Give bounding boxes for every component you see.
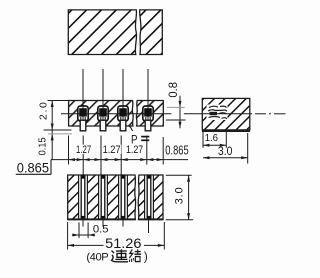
slot 2 bbox=[99, 175, 108, 220]
side view centerline bbox=[202, 113, 285, 115]
pin contact 2 body bbox=[98, 106, 108, 131]
slot 1 bbox=[79, 175, 88, 220]
svg-text:3.0: 3.0 bbox=[218, 145, 233, 158]
side view contact detail bbox=[207, 105, 228, 121]
arrows on dim row bbox=[69, 158, 76, 161]
pin centerline 4 bbox=[147, 69, 149, 121]
dim 0.8 bbox=[166, 82, 186, 128]
svg-text:(40P: (40P bbox=[86, 252, 108, 264]
svg-text:0.865: 0.865 bbox=[17, 160, 49, 175]
side view body bbox=[202, 98, 250, 131]
dim 0.15 bbox=[37, 130, 72, 155]
slot 4 bbox=[145, 175, 154, 220]
pin centerline 1 bbox=[82, 69, 84, 121]
svg-text:0.5: 0.5 bbox=[93, 223, 109, 235]
pin centerline 3 bbox=[122, 69, 124, 121]
dim 0.5 bbox=[72, 222, 109, 238]
dim text 1.27 x3 bbox=[75, 145, 92, 154]
svg-text:P: P bbox=[131, 132, 138, 146]
svg-text:3.0: 3.0 bbox=[174, 187, 186, 204]
slot 3 bbox=[119, 175, 128, 220]
bottom view slot centerlines below bbox=[83, 220, 149, 233]
front view housing right piece bbox=[136, 101, 163, 127]
dim 3.0 vertical bbox=[166, 175, 193, 220]
extension ticks bbox=[69, 136, 164, 176]
svg-text:1.6: 1.6 bbox=[205, 133, 218, 144]
bottom view right piece bbox=[138, 175, 163, 220]
pin contact 1 body bbox=[78, 106, 88, 131]
bottom view bottom edge bbox=[68, 218, 135, 220]
svg-text:0.865: 0.865 bbox=[165, 143, 188, 158]
dim 51.26 bbox=[68, 222, 165, 251]
svg-text:0.8: 0.8 bbox=[166, 82, 180, 98]
front view housing left piece bbox=[69, 101, 134, 127]
dim 1.6 bbox=[203, 132, 226, 148]
svg-text:1.27: 1.27 bbox=[76, 144, 91, 156]
dim 3.0 horizontal bbox=[203, 133, 248, 164]
svg-text:2.0: 2.0 bbox=[38, 102, 49, 120]
top view left block bbox=[68, 10, 136, 55]
kanji 連 bbox=[112, 249, 129, 261]
bottom dim row line bbox=[51, 159, 188, 161]
pin contact 4 body bbox=[143, 106, 153, 131]
contact square 3 bbox=[119, 108, 127, 116]
svg-text:1.27: 1.27 bbox=[103, 144, 121, 156]
svg-text:51.26: 51.26 bbox=[105, 236, 141, 251]
contact square 2 bbox=[99, 108, 107, 116]
contact square 1 bbox=[79, 108, 87, 116]
pin centerline 2 bbox=[102, 69, 104, 121]
top view right block bbox=[140, 10, 163, 55]
svg-text:): ) bbox=[144, 252, 148, 264]
horizontal centerline through contacts bbox=[61, 113, 171, 115]
kanji 結 bbox=[129, 249, 141, 262]
label (40P renketsu) bbox=[86, 249, 147, 263]
dim 2.0 bbox=[38, 101, 68, 160]
dim 0.865 left boxed bbox=[16, 160, 51, 176]
bottom view left piece bbox=[68, 175, 136, 220]
pin contact 3 body bbox=[118, 106, 128, 131]
svg-text:0.15: 0.15 bbox=[37, 137, 48, 155]
break line tail bbox=[129, 126, 133, 131]
contact square 4 bbox=[144, 108, 152, 116]
